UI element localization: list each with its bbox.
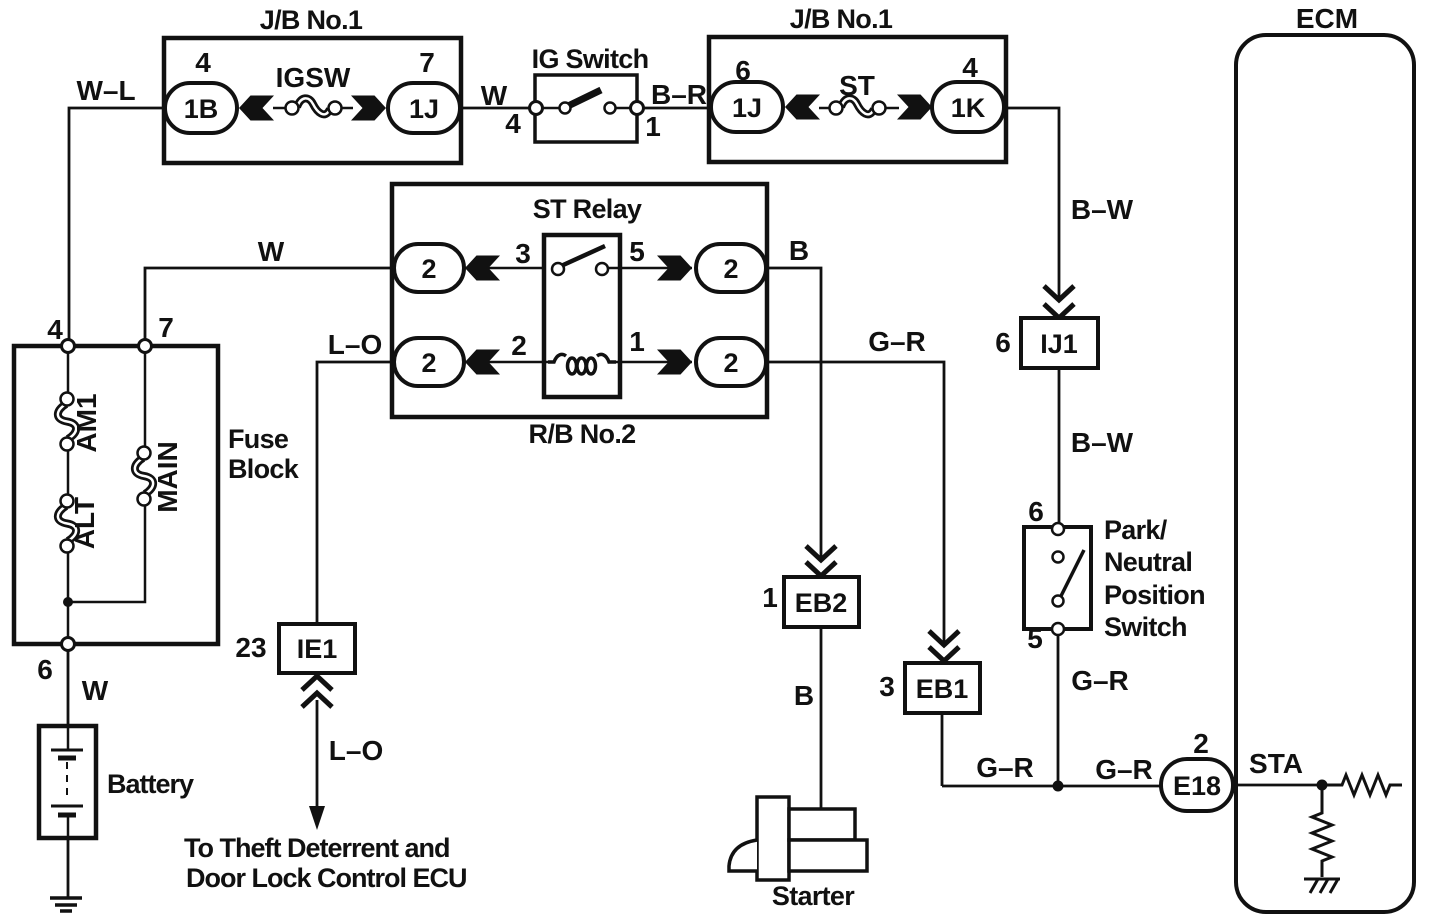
connector 1K — [932, 82, 1004, 132]
ECM box — [1236, 35, 1414, 912]
arrow left bottom row — [465, 350, 500, 375]
svg-text:EB1: EB1 — [916, 674, 969, 704]
junction dot — [63, 597, 73, 607]
IG Switch box — [535, 75, 637, 142]
relay oval 2 bottom-left — [394, 338, 464, 386]
arrow right bottom row — [657, 350, 692, 375]
ground below battery — [50, 898, 82, 911]
chevron arrows into EB1 — [929, 631, 959, 661]
svg-text:IJ1: IJ1 — [1040, 329, 1078, 359]
svg-text:ECM: ECM — [1296, 3, 1358, 34]
ground in ECM — [1304, 879, 1340, 893]
pin 7 circle — [139, 340, 152, 353]
relay contact circles — [552, 263, 564, 275]
park/neutral position switch box — [1024, 527, 1091, 629]
svg-text:STA: STA — [1249, 748, 1303, 779]
svg-text:2: 2 — [511, 330, 527, 361]
wire L-O from ST relay to IE1 — [317, 362, 396, 623]
svg-text:1B: 1B — [184, 94, 219, 124]
relay coil — [548, 354, 616, 374]
starter solenoid body — [757, 797, 789, 880]
IG switch terminal 1 — [631, 102, 644, 115]
IG switch wires inside — [536, 107, 565, 110]
fuse IGSW — [273, 98, 353, 114]
arrow right at 1K — [897, 95, 932, 120]
svg-text:Battery: Battery — [107, 769, 194, 799]
pin 4 circle — [62, 340, 75, 353]
relay oval 2 bottom-right — [696, 338, 766, 386]
svg-text:4: 4 — [47, 314, 63, 345]
svg-text:B: B — [794, 680, 814, 711]
wire B-W from 1K to IJ1 — [1002, 108, 1059, 300]
J/B No.1 right box — [709, 37, 1006, 162]
P/N switch contacts — [1052, 523, 1064, 535]
svg-text:2: 2 — [723, 348, 738, 378]
svg-text:3: 3 — [515, 238, 531, 269]
svg-text:Switch: Switch — [1104, 612, 1187, 642]
svg-text:E18: E18 — [1173, 771, 1221, 801]
wire W from ST relay to Fuse Block pin 7 — [145, 268, 396, 341]
svg-text:1: 1 — [645, 111, 661, 142]
arrow left at 1J — [785, 95, 820, 120]
svg-text:L–O: L–O — [328, 329, 382, 360]
svg-text:Position: Position — [1104, 580, 1205, 610]
svg-text:6: 6 — [1028, 496, 1044, 527]
svg-text:4: 4 — [195, 47, 211, 78]
svg-text:IG Switch: IG Switch — [532, 44, 649, 74]
svg-text:MAIN: MAIN — [152, 441, 183, 513]
wire STA from E18 into ECM — [1230, 784, 1322, 787]
chevron arrows below IE1 — [302, 676, 332, 707]
wire B-W from IJ1 to Park/Neutral switch — [1058, 368, 1061, 524]
svg-text:G–R: G–R — [1095, 754, 1153, 785]
arrow to theft deterrent — [309, 806, 325, 830]
svg-text:Starter: Starter — [772, 881, 855, 911]
svg-text:B–R: B–R — [651, 79, 707, 110]
svg-text:Door Lock Control ECU: Door Lock Control ECU — [186, 863, 467, 893]
fuse MAIN — [135, 447, 153, 506]
svg-text:1K: 1K — [951, 93, 986, 123]
svg-text:Neutral: Neutral — [1104, 547, 1192, 577]
svg-text:4: 4 — [505, 108, 521, 139]
svg-text:R/B No.2: R/B No.2 — [529, 419, 636, 449]
svg-text:Park/: Park/ — [1104, 515, 1168, 545]
junction dot G-R — [1053, 781, 1064, 792]
arrow right at 1J — [351, 96, 386, 121]
svg-text:L–O: L–O — [329, 735, 383, 766]
wire W from Fuse Block pin 6 to Battery — [67, 648, 70, 727]
svg-text:B–W: B–W — [1071, 427, 1134, 458]
J/B No.1 left box — [164, 38, 461, 163]
svg-text:W: W — [258, 236, 285, 267]
wire G-R from Park/Neutral switch to junction — [1057, 634, 1060, 786]
svg-text:4: 4 — [962, 52, 978, 83]
connector EB1 — [905, 663, 980, 713]
starter drive housing — [729, 840, 757, 871]
svg-text:Fuse: Fuse — [228, 424, 289, 454]
svg-text:2: 2 — [421, 254, 436, 284]
svg-text:7: 7 — [158, 312, 174, 343]
wire from Battery to ground — [67, 837, 70, 898]
svg-text:ST Relay: ST Relay — [533, 194, 642, 224]
wire B from ST relay to EB2 — [764, 268, 821, 562]
svg-text:G–R: G–R — [976, 752, 1034, 783]
Battery box — [39, 726, 96, 838]
IG switch contact circles — [560, 103, 571, 114]
svg-text:EB2: EB2 — [795, 588, 848, 618]
svg-text:2: 2 — [421, 348, 436, 378]
wire B-R from IG switch to J/B No.1 right — [637, 107, 712, 110]
svg-text:ST: ST — [839, 70, 875, 101]
starter lower body — [789, 840, 867, 871]
svg-text:B: B — [789, 235, 809, 266]
svg-text:23: 23 — [235, 632, 266, 663]
svg-text:IE1: IE1 — [297, 634, 338, 664]
starter upper body — [789, 809, 855, 840]
fuse AM1 — [58, 393, 76, 451]
arrow left at 1B — [239, 96, 274, 121]
svg-text:1J: 1J — [732, 93, 762, 123]
resistor vertical in ECM — [1312, 785, 1332, 877]
svg-text:6: 6 — [37, 654, 53, 685]
ST Relay outer box R/B No.2 — [392, 184, 767, 417]
battery internals — [51, 726, 83, 838]
svg-text:3: 3 — [879, 671, 895, 702]
svg-text:1J: 1J — [409, 94, 439, 124]
arrow left top row — [465, 256, 500, 281]
svg-text:G–R: G–R — [1071, 665, 1129, 696]
fuse ALT — [58, 495, 76, 553]
wire G-R horizontal to E18 — [942, 785, 1165, 788]
fuse ST — [819, 98, 899, 114]
svg-text:J/B No.1: J/B No.1 — [790, 4, 893, 34]
relay oval 2 top-right — [696, 244, 766, 292]
connector 1J right — [711, 82, 783, 132]
IG switch terminal 4 — [530, 102, 543, 115]
chevron arrows into EB2 — [806, 546, 836, 576]
connector E18 — [1161, 759, 1233, 811]
resistor horizontal in ECM — [1322, 775, 1402, 795]
relay wires inside — [464, 268, 692, 362]
svg-text:Block: Block — [228, 454, 300, 484]
wire W-L from J/B No.1 1B to Fuse Block pin 4 — [69, 108, 170, 341]
svg-text:W–L: W–L — [76, 75, 135, 106]
svg-text:W: W — [481, 80, 508, 111]
svg-text:2: 2 — [1193, 728, 1209, 759]
junction dot STA — [1317, 780, 1328, 791]
wire from EB1 down to G-R junction — [941, 713, 944, 786]
relay inner box — [544, 235, 620, 397]
wire G-R from ST relay to EB1 — [764, 362, 944, 647]
svg-text:5: 5 — [629, 236, 645, 267]
svg-text:1: 1 — [762, 582, 778, 613]
svg-text:6: 6 — [995, 327, 1011, 358]
svg-text:W: W — [82, 675, 109, 706]
relay contact lever — [561, 246, 605, 266]
pin 6 circle — [62, 638, 75, 651]
relay oval 2 top-left — [394, 244, 464, 292]
svg-text:5: 5 — [1027, 623, 1043, 654]
svg-text:1: 1 — [629, 326, 645, 357]
svg-text:J/B No.1: J/B No.1 — [260, 5, 363, 35]
svg-text:2: 2 — [723, 254, 738, 284]
fuse block internal wires — [68, 346, 145, 644]
Fuse Block box — [14, 346, 218, 644]
connector 1B — [165, 83, 237, 133]
svg-text:AM1: AM1 — [71, 393, 102, 452]
svg-text:IGSW: IGSW — [276, 62, 351, 93]
svg-text:To Theft Deterrent and: To Theft Deterrent and — [184, 833, 450, 863]
connector IE1 — [279, 624, 355, 673]
wire B from EB2 to Starter — [820, 627, 823, 809]
connector EB2 — [784, 577, 859, 627]
svg-text:7: 7 — [419, 47, 435, 78]
arrow right top row — [657, 256, 692, 281]
connector 1J — [388, 83, 460, 133]
P/N switch lever — [1060, 550, 1084, 598]
svg-text:ALT: ALT — [69, 497, 100, 549]
wire W from IG switch to J/B — [462, 107, 536, 110]
connector IJ1 — [1021, 318, 1098, 368]
svg-text:G–R: G–R — [868, 326, 926, 357]
IG switch lever — [568, 90, 601, 106]
svg-text:B–W: B–W — [1071, 194, 1134, 225]
chevron arrows into IJ1 — [1044, 286, 1074, 318]
wire L-O from IE1 chevron to arrow — [316, 700, 319, 812]
